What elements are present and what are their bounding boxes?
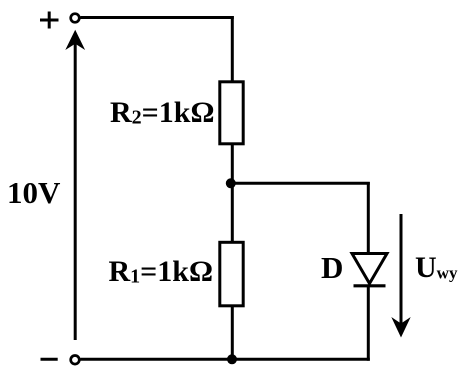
wire top-right vertical to R2: [231, 16, 234, 83]
voltage source arrow (10V): [65, 30, 85, 340]
label + (positive terminal sign): [40, 12, 59, 29]
terminal circle top-left: [71, 14, 80, 23]
svg-text:R1=1kΩ: R1=1kΩ: [109, 255, 213, 288]
label − (negative terminal sign): [41, 358, 58, 361]
arrow Uwy (output voltage): [391, 214, 410, 338]
wire node A to diode branch (horizontal): [231, 182, 370, 185]
diode D: [352, 254, 387, 286]
svg-text:R2=1kΩ: R2=1kΩ: [110, 96, 214, 129]
wire bottom horizontal: [81, 358, 370, 361]
wire R2 bottom to node A: [231, 144, 234, 185]
resistor R1: [220, 242, 243, 305]
wire R1 bottom to node B: [231, 306, 234, 361]
wire node A down to R1: [231, 183, 234, 243]
node A junction dot: [226, 178, 236, 188]
node B junction dot: [227, 354, 237, 364]
terminal circle bottom-left: [71, 356, 80, 365]
svg-text:10V: 10V: [7, 175, 61, 210]
resistor R2: [220, 82, 243, 144]
wire diode branch vertical upper: [367, 182, 370, 254]
wire diode branch vertical lower: [367, 285, 370, 361]
svg-text:D: D: [321, 250, 343, 285]
wire top horizontal: [81, 16, 234, 19]
